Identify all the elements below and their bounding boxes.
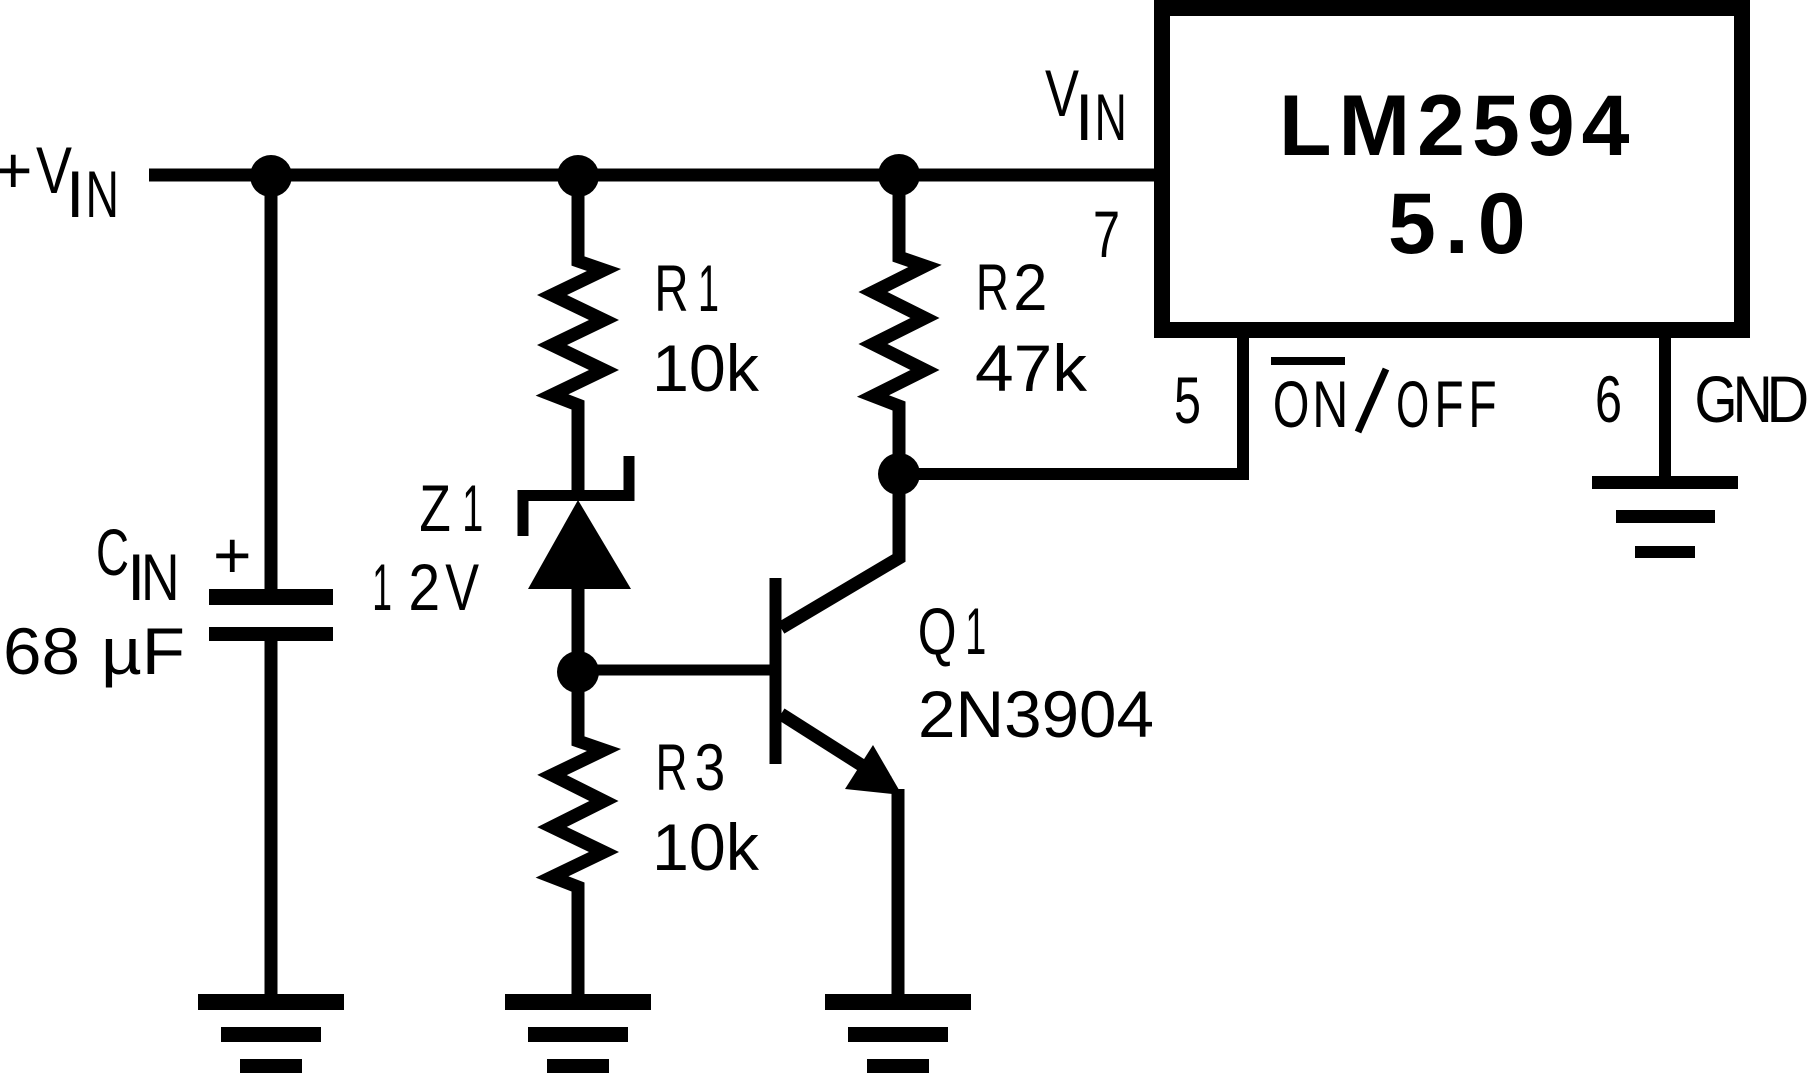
wire emitter vertical — [892, 789, 905, 1002]
transistor Q1 emitter arrowhead — [845, 745, 902, 795]
resistor R2 — [873, 181, 925, 474]
svg-text:6: 6 — [1595, 362, 1622, 436]
resistor R3 — [552, 672, 604, 1002]
wire zener to node A — [572, 585, 585, 672]
svg-text:D: D — [1767, 362, 1807, 436]
svg-text:Z: Z — [419, 471, 450, 545]
ground symbol Q1 emitter — [825, 994, 971, 1010]
svg-text:+: + — [213, 518, 252, 592]
zener Z1 triangle — [528, 500, 631, 589]
svg-text:10k: 10k — [652, 810, 760, 884]
wire CIN column lower — [265, 639, 278, 1002]
svg-text:µF: µF — [101, 614, 185, 688]
svg-text:F: F — [1434, 367, 1463, 441]
svg-text:7: 7 — [1093, 197, 1120, 271]
ground symbol CIN — [198, 994, 344, 1010]
zener Z1 cathode bar — [523, 456, 629, 536]
svg-text:I: I — [1075, 80, 1093, 154]
svg-text:C: C — [96, 515, 129, 589]
svg-text:N: N — [1312, 367, 1348, 441]
svg-text:10k: 10k — [652, 331, 760, 405]
svg-text:R: R — [654, 251, 688, 325]
node dot junction R2-collector-pin5 — [878, 453, 920, 495]
svg-text:+: + — [0, 133, 33, 207]
svg-text:2: 2 — [1013, 250, 1047, 324]
wire emitter diagonal — [781, 714, 888, 782]
svg-text:LM2594: LM2594 — [1279, 78, 1637, 174]
op-amp U1 LM2594 box — [1162, 8, 1742, 330]
svg-text:V: V — [1045, 56, 1079, 130]
svg-text:V: V — [445, 550, 479, 624]
svg-text:O: O — [1273, 367, 1310, 441]
svg-text:N: N — [1095, 80, 1127, 154]
svg-text:R: R — [976, 250, 1009, 324]
node dot junction zener-R3-base — [557, 651, 599, 693]
svg-text:Q: Q — [918, 594, 957, 668]
svg-text:1: 1 — [698, 251, 719, 325]
overline ON — [1271, 357, 1345, 365]
resistor R1 — [552, 181, 604, 491]
label ON/OFF slash stroke — [1358, 369, 1386, 432]
wire top rail +VIN — [149, 169, 1162, 182]
svg-text:N: N — [86, 157, 120, 231]
wire node B to pin 5 — [899, 329, 1243, 474]
node dot junction VIN-R1 — [557, 155, 599, 197]
svg-text:N: N — [141, 540, 180, 614]
wire CIN column upper — [265, 175, 278, 591]
svg-text:I: I — [66, 157, 84, 231]
wire GND pin 6 — [1659, 330, 1671, 482]
wire collector — [781, 474, 899, 628]
ground symbol R3 — [505, 994, 651, 1010]
svg-text:5: 5 — [1174, 363, 1201, 437]
svg-text:G: G — [1695, 362, 1738, 436]
node A dot junction VIN-CIN — [250, 155, 292, 197]
svg-text:3: 3 — [695, 730, 726, 804]
svg-text:R: R — [656, 730, 688, 804]
capacitor CIN plates — [209, 589, 333, 605]
svg-text:1: 1 — [462, 471, 483, 545]
svg-text:47k: 47k — [975, 331, 1088, 405]
svg-text:68: 68 — [3, 614, 80, 688]
svg-text:O: O — [1396, 367, 1429, 441]
svg-text:2: 2 — [408, 550, 440, 624]
node dot junction VIN-R2 — [878, 154, 920, 196]
transistor Q1 base bar — [770, 578, 782, 764]
ground symbol GND pin 6 — [1592, 476, 1738, 489]
wire base from node A — [578, 665, 772, 676]
svg-text:1: 1 — [372, 550, 392, 624]
svg-text:5.0: 5.0 — [1388, 176, 1535, 272]
svg-text:1: 1 — [965, 594, 986, 668]
svg-text:2N3904: 2N3904 — [918, 677, 1154, 751]
svg-text:F: F — [1469, 367, 1497, 441]
